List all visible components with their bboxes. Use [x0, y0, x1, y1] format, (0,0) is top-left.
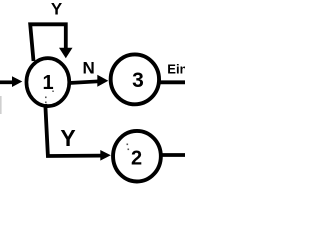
svg-text:Ein: Ein [167, 62, 185, 77]
arrowhead into node 3 [97, 75, 108, 87]
speck artifacts below state 1 [45, 91, 54, 104]
svg-text:Y: Y [51, 0, 63, 19]
svg-text:2: 2 [131, 148, 142, 170]
arrowhead into node 2 [100, 150, 111, 161]
wire: Y branch line 1 to 2 [45, 104, 101, 156]
arrowhead into node 1 [12, 76, 22, 87]
node 1 (state circle) [26, 58, 69, 106]
wire: start arrow line into node 1 [0, 80, 14, 84]
svg-text:1: 1 [42, 72, 53, 94]
svg-text:3: 3 [132, 69, 144, 92]
wire: output line from node 3 [159, 80, 185, 84]
node 3 (state circle) [111, 54, 159, 104]
svg-text:Y: Y [60, 125, 75, 151]
arrowhead of self-loop into node 1 [59, 48, 73, 59]
node 2 (state circle) [113, 131, 161, 182]
svg-text:N: N [83, 59, 95, 78]
scan artifact at left edge [0, 96, 2, 114]
wire: self-loop of node 1 [30, 24, 66, 61]
wire: output line from node 2 [161, 153, 185, 157]
wire: N transition line 1 to 3 [69, 81, 99, 83]
speck artifacts left of state 2 [127, 144, 130, 151]
